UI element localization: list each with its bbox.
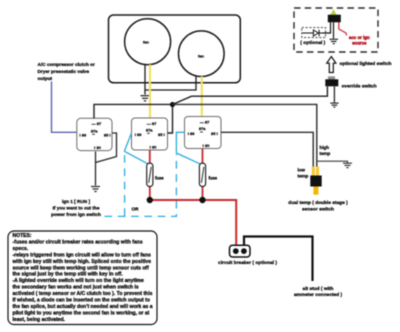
diode D1 (optional) [302, 30, 323, 37]
svg-text:the signal just by the temp st: the signal just by the temp still with k… [13, 272, 124, 278]
svg-text:87a: 87a [146, 128, 153, 133]
NOTES box [8, 231, 157, 325]
wire: red positive bus to circuit breaker [150, 200, 236, 248]
svg-text:output: output [38, 76, 53, 81]
ground (fans) [141, 96, 150, 101]
wire: relay K3 pin 85 to low temp terminal [221, 132, 313, 168]
svg-text:Dryer presostatic valve: Dryer presostatic valve [38, 69, 90, 74]
wire: lighted switch power (red) [339, 22, 347, 35]
fan M1 [125, 19, 171, 65]
diode dashed box [302, 28, 326, 38]
svg-text:I 86: I 86 [135, 132, 142, 137]
wire: relay K2 pin 85 riser [168, 104, 173, 133]
svg-text:source: source [352, 40, 367, 45]
svg-text:I 30: I 30 [94, 145, 101, 150]
svg-text:-fuses and/or circuit breaker: -fuses and/or circuit breaker rates acco… [13, 239, 143, 245]
svg-text:I 30: I 30 [150, 145, 157, 150]
ground (relay K1) [91, 187, 100, 192]
ground (override switch) [330, 103, 338, 107]
svg-text:( optional ): ( optional ) [300, 40, 325, 46]
wire: relay K3 pin 30 (red) [202, 149, 204, 165]
svg-text:A/C compressor clutch or: A/C compressor clutch or [38, 62, 95, 67]
svg-text:I 30: I 30 [203, 143, 210, 148]
override switch [325, 76, 376, 89]
label: alt stud [294, 286, 343, 298]
svg-text:acc or ign: acc or ign [349, 35, 370, 40]
svg-text:I 86: I 86 [80, 133, 87, 138]
fan shroud [109, 15, 241, 83]
label: acc or ign source [349, 35, 370, 45]
wire: cyan splice to fuse F2 top [176, 153, 199, 164]
svg-text:OR: OR [131, 207, 139, 212]
wire: high temp ground branch [317, 161, 348, 163]
svg-text:pilot light to you anytime the: pilot light to you anytime the second fa… [13, 310, 150, 316]
label: ign note [51, 199, 101, 217]
wire: bus to high temp terminal [173, 104, 317, 168]
fuse F1 [147, 163, 165, 186]
svg-text:87a: 87a [91, 128, 98, 133]
relay K1 [77, 118, 112, 150]
svg-text:alt stud ( with: alt stud ( with [303, 286, 334, 292]
arrow: optional lighted switch pointer [327, 57, 336, 73]
optional circuit dashed box [294, 8, 378, 52]
svg-text:with ign key still with temp h: with ign key still with temp high. Splic… [12, 259, 152, 265]
svg-text:override switch: override switch [342, 84, 377, 90]
label: sensor [288, 200, 348, 213]
svg-text:fan: fan [198, 53, 205, 58]
wire: OR dashed path (cyan) [124, 152, 126, 217]
svg-text:ign 1 [ RUN ]: ign 1 [ RUN ] [62, 199, 91, 204]
wire: relay K1 pins 85+30 to ground [96, 133, 117, 163]
fuse F2 [199, 163, 217, 186]
svg-text:the secondary fan works and no: the secondary fan works and not just whe… [13, 285, 139, 291]
svg-text:low: low [298, 168, 306, 173]
label: A/C trigger source [38, 62, 95, 81]
svg-text:If you want to cut the: If you want to cut the [53, 206, 100, 211]
svg-text:ammeter connected ): ammeter connected ) [294, 292, 343, 298]
svg-text:— 87: — 87 [147, 121, 157, 126]
wire: A/C trigger (blue) to relay K1 pin 86 [52, 82, 77, 133]
wire: relay K3 pin 86 (cyan solid) [176, 132, 184, 153]
wire: relay K1 pin 87 riser to bus [94, 104, 173, 118]
svg-text:fuse: fuse [209, 176, 218, 181]
svg-text:fan: fan [143, 39, 150, 44]
relay K2 [132, 118, 168, 150]
circuit breaker CB1 [218, 245, 277, 266]
svg-text:circuit breaker ( optional ): circuit breaker ( optional ) [218, 260, 277, 266]
svg-text:source will keep them working: source will keep them working until temp… [13, 265, 150, 271]
wire: breaker to alt stud (black) [244, 237, 313, 282]
svg-text:optional lighted switch: optional lighted switch [340, 61, 392, 67]
svg-text:85 I: 85 I [104, 133, 111, 138]
fan M2 [179, 31, 225, 77]
relay K3 [185, 117, 222, 149]
svg-text:dual temp ( double stage ): dual temp ( double stage ) [288, 200, 348, 206]
svg-text:— 87: — 87 [92, 121, 102, 126]
svg-text:high: high [320, 145, 330, 150]
svg-text:— 87: — 87 [200, 120, 210, 125]
node A (bus junction) [170, 102, 175, 107]
label: high temp [320, 145, 331, 156]
svg-text:NOTES:: NOTES: [13, 233, 32, 239]
svg-text:power from ign switch: power from ign switch [51, 212, 101, 217]
wire: relay K2 pin 86 (cyan solid diagonal) [125, 133, 132, 152]
lighted switch [328, 9, 341, 22]
wire: lighted switch to ground [333, 22, 335, 38]
svg-text:the fan splice, but actually d: the fan splice, but actually don't neede… [13, 304, 153, 310]
svg-text:sensor switch: sensor switch [302, 207, 334, 213]
wire: bus to override switch [173, 87, 328, 105]
wire: left fan ground lead [144, 65, 146, 95]
svg-text:least, being activated.: least, being activated. [13, 317, 66, 323]
label: low temp [298, 168, 309, 179]
svg-text:temp: temp [298, 174, 309, 179]
svg-text:fuse: fuse [155, 176, 164, 181]
ground (lighted switch) [330, 39, 339, 43]
node (red bus junction 2) [199, 197, 205, 203]
wire: cyan splice to fuse F1 top [125, 151, 148, 163]
svg-text:specs.: specs. [13, 246, 29, 252]
svg-text:temp: temp [320, 151, 331, 156]
wire: override switch to ground [333, 86, 335, 102]
wire: right fan ground lead [145, 77, 196, 91]
wire: relay K2 pin 30 (red) [149, 150, 151, 164]
svg-text:85 I: 85 I [158, 132, 165, 137]
wire: right fan positive (yellow) [201, 76, 203, 116]
svg-text:-A lighted override switch wil: -A lighted override switch will turn on … [13, 278, 145, 284]
svg-text:87a: 87a [199, 126, 206, 131]
svg-text:I 86: I 86 [188, 131, 195, 136]
svg-text:85 I: 85 I [211, 131, 218, 136]
svg-text:if wished, a diode can be inse: if wished, a diode can be inserted on th… [13, 298, 150, 304]
ground (sensor) [343, 163, 352, 167]
svg-text:activated ( temp sensor or A/C: activated ( temp sensor or A/C clutch to… [13, 291, 153, 297]
node (red bus junction 1) [147, 197, 153, 203]
dual temp sensor [310, 167, 321, 195]
svg-text:-relays triggered from ign cir: -relays triggered from ign circuit will … [13, 252, 151, 258]
wire: left fan positive (yellow) [149, 65, 151, 119]
